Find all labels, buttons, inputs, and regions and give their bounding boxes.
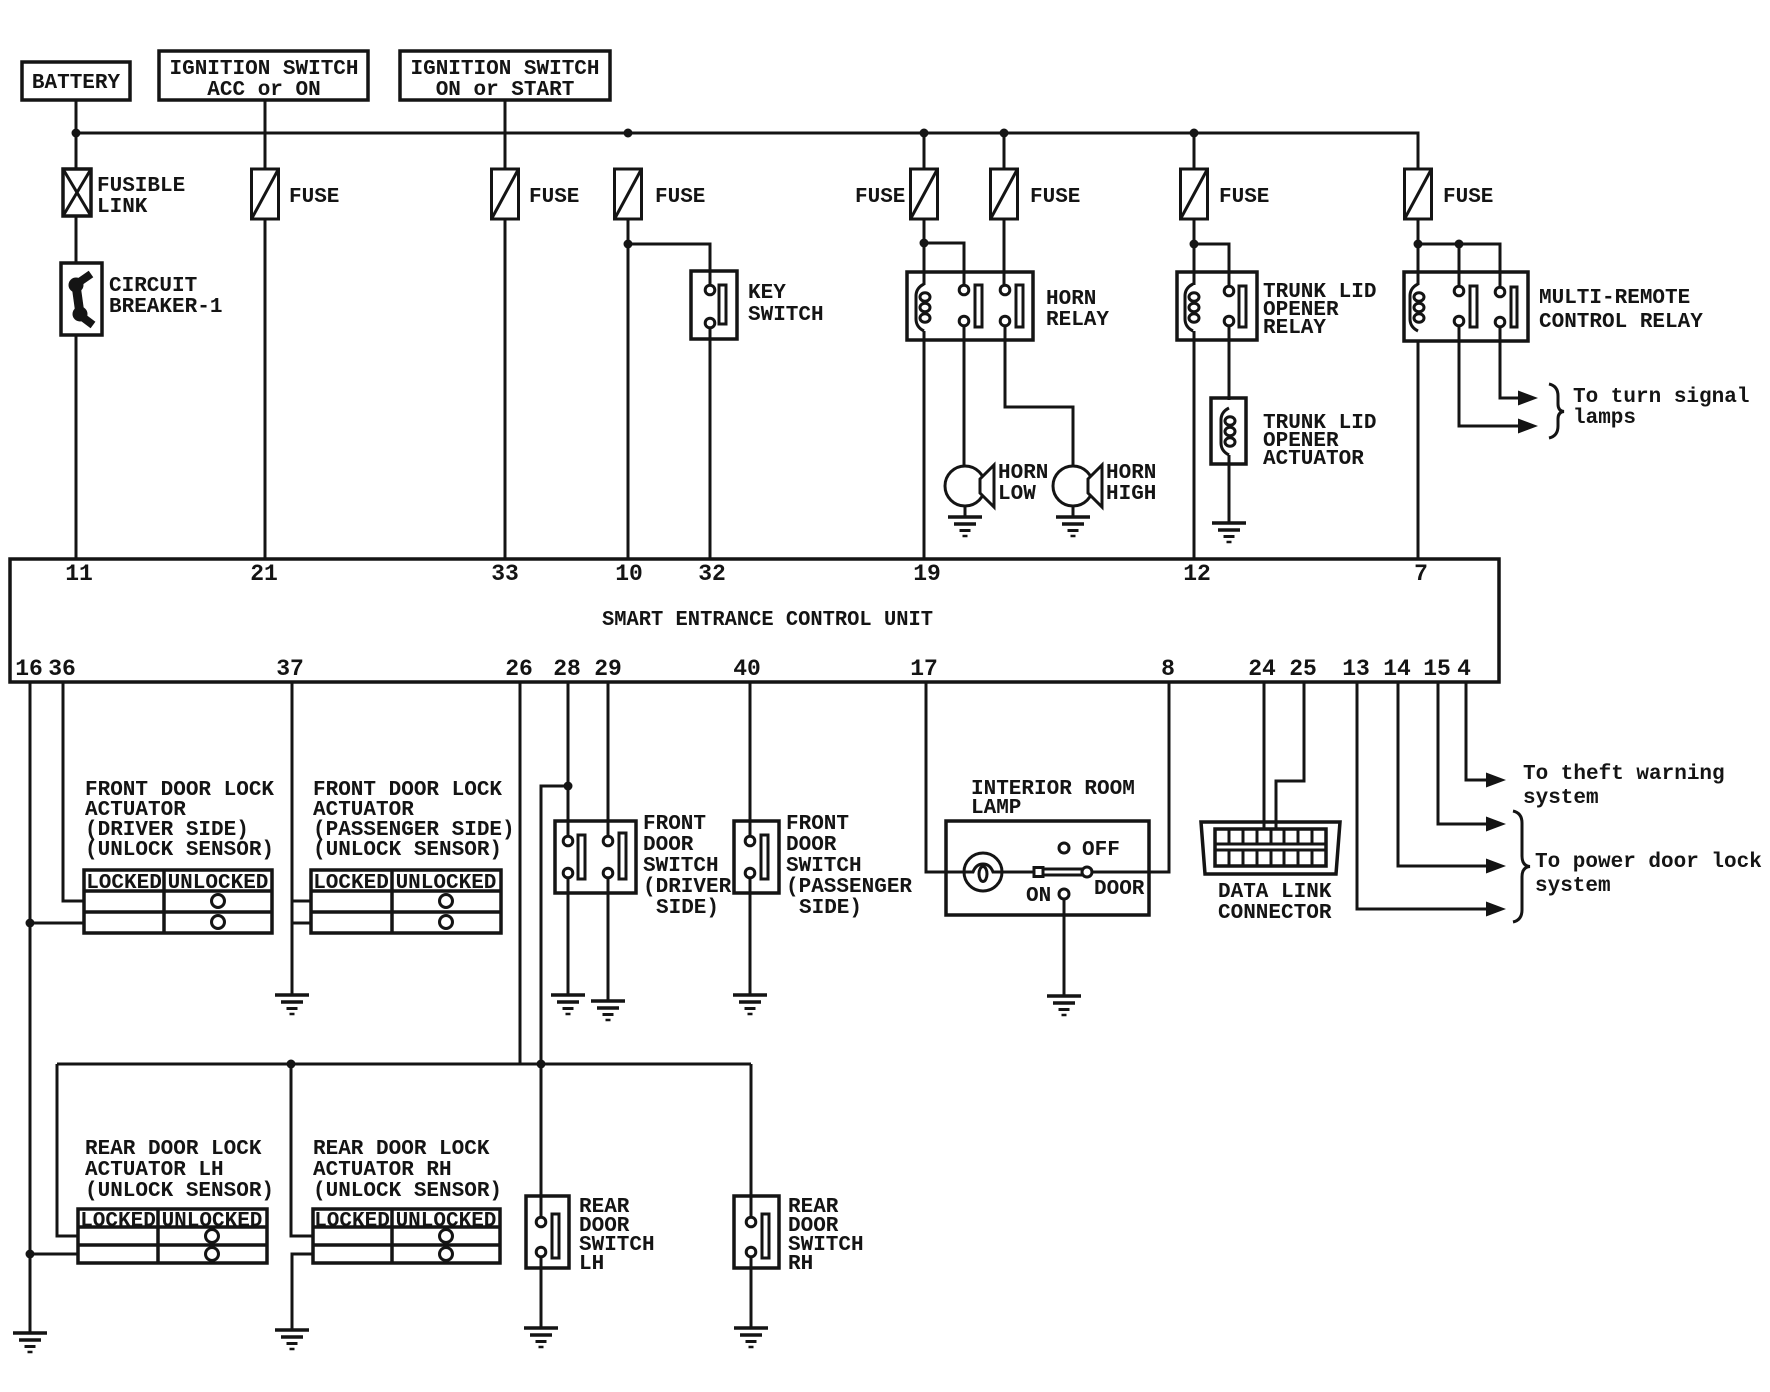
wire pin 15 to power door lock: [1438, 682, 1487, 824]
wire horn high to ground: [1072, 506, 1075, 517]
wire pin 37 down: [291, 682, 294, 995]
contact OFF: [1059, 843, 1069, 853]
fuse (pin10/key switch): [615, 169, 642, 219]
wire ON contact to ground: [1063, 899, 1066, 996]
svg-text:IGNITION SWITCH: IGNITION SWITCH: [169, 58, 358, 81]
front door switch driver side: [555, 813, 732, 920]
wire pin 40 down: [749, 682, 752, 836]
svg-text:LH: LH: [579, 1253, 604, 1276]
svg-text:UNLOCKED: UNLOCKED: [168, 872, 269, 895]
wire rear feed right corner to RH switch: [750, 1064, 753, 1202]
wire bus to fuse12: [1193, 133, 1196, 169]
wire trunk relay to actuator: [1228, 326, 1231, 400]
wire to rear LH actuator row3: [30, 1253, 78, 1256]
ground passenger switch: [733, 995, 767, 1014]
wire to passenger actuator row2: [292, 900, 311, 903]
svg-text:SIDE): SIDE): [656, 897, 719, 920]
switch pivot contact: [1034, 868, 1043, 877]
svg-text:LAMP: LAMP: [971, 797, 1021, 820]
wire fuse to pin 10: [627, 219, 630, 559]
switch blade: [1043, 869, 1083, 875]
svg-text:26: 26: [505, 656, 533, 682]
svg-text:OFF: OFF: [1082, 839, 1120, 862]
svg-text:(UNLOCK SENSOR): (UNLOCK SENSOR): [313, 839, 502, 862]
wire rear feed left corner to LH table row2: [57, 1064, 78, 1236]
ground lamp: [1047, 996, 1081, 1015]
svg-text:FUSE: FUSE: [1443, 186, 1493, 209]
svg-text:(UNLOCK SENSOR): (UNLOCK SENSOR): [85, 1180, 274, 1203]
svg-text:LOCKED: LOCKED: [313, 872, 389, 895]
svg-text:lamps: lamps: [1573, 407, 1636, 430]
node bus junction pin10 branch: [624, 129, 633, 138]
svg-text:DOOR: DOOR: [1094, 878, 1145, 901]
wire fusible link to breaker: [75, 216, 78, 263]
wire pin 29 down: [607, 682, 610, 836]
wire pin 25: [1276, 682, 1304, 829]
wire fuse to pin 21: [264, 219, 267, 559]
brace turn signal: [1549, 384, 1564, 438]
svg-text:RELAY: RELAY: [1263, 317, 1326, 340]
wire LH feed into switch: [540, 1064, 543, 1217]
node rear feed RH branch: [287, 1060, 296, 1069]
node pin16 to driver row3: [26, 919, 35, 928]
multi-remote control relay: [1404, 272, 1703, 341]
fuse (multi-remote): [1405, 169, 1432, 219]
wire pin 13 to power door lock: [1357, 682, 1487, 909]
bulb: [964, 853, 1002, 891]
front door switch passenger side: [734, 813, 912, 920]
wire horn relay coil to pin 19: [923, 331, 926, 559]
node multi branch 1: [1414, 240, 1423, 249]
svg-text:ACTUATOR LH: ACTUATOR LH: [85, 1159, 224, 1182]
node bus junction horn fuse2: [1000, 129, 1009, 138]
ground trunk actuator: [1212, 523, 1246, 542]
svg-text:BREAKER-1: BREAKER-1: [109, 296, 222, 319]
ignition switch ON or START box: [400, 51, 610, 102]
wire rear feed horizontal: [57, 1063, 751, 1066]
svg-text:REAR DOOR LOCK: REAR DOOR LOCK: [313, 1138, 490, 1161]
svg-text:16: 16: [15, 656, 43, 682]
svg-text:40: 40: [733, 656, 761, 682]
svg-text:MULTI-REMOTE: MULTI-REMOTE: [1539, 287, 1690, 310]
svg-text:FUSE: FUSE: [1219, 186, 1269, 209]
svg-text:HORN: HORN: [1046, 288, 1096, 311]
svg-text:FUSE: FUSE: [289, 186, 339, 209]
wire fuse to pin 33: [504, 219, 507, 559]
node bus-battery junction: [72, 129, 81, 138]
wire lamp to pin 8: [1092, 682, 1169, 872]
fuse (ON/pin33): [492, 169, 519, 219]
trunk lid opener relay: [1177, 272, 1376, 340]
ground pin16 chain: [13, 1333, 47, 1352]
wire branch to middle contact: [1458, 244, 1461, 287]
rear door lock actuator LH: [78, 1138, 274, 1263]
svg-text:32: 32: [698, 561, 726, 587]
svg-text:LOCKED: LOCKED: [80, 1210, 156, 1233]
svg-text:10: 10: [615, 561, 643, 587]
svg-text:KEY: KEY: [748, 282, 786, 305]
contact ON: [1059, 889, 1069, 899]
wire horn low to ground: [964, 506, 967, 517]
rear door lock actuator RH: [313, 1138, 502, 1263]
wire pin 14 to power door lock: [1398, 682, 1487, 866]
wire fuse to horn relay coil: [923, 219, 926, 285]
wire branch to rear feed: [541, 786, 568, 1064]
svg-text:BATTERY: BATTERY: [32, 72, 121, 95]
wire passenger switch to ground: [749, 878, 752, 995]
rear door switch LH: [526, 1196, 655, 1276]
arrow power door lock 3: [1486, 902, 1506, 917]
node rear feed / LH switch: [537, 1060, 546, 1069]
ground rear RH actuator: [275, 1330, 309, 1349]
svg-text:37: 37: [276, 656, 304, 682]
svg-text:system: system: [1535, 875, 1611, 898]
node trunk branch: [1190, 240, 1199, 249]
wire to driver actuator row3: [30, 922, 84, 925]
svg-text:(DRIVER: (DRIVER: [643, 876, 732, 899]
contact DOOR: [1082, 867, 1092, 877]
wire branch to horn relay contact: [924, 243, 964, 286]
wire branch to contacts: [1418, 244, 1500, 288]
wire fuse to multi relay coil: [1417, 219, 1420, 285]
wire trunk relay coil to pin 12: [1193, 331, 1196, 559]
wire key switch to pin 32: [709, 327, 712, 559]
svg-text:system: system: [1523, 787, 1599, 810]
svg-text:11: 11: [65, 561, 93, 587]
ground passenger actuator: [275, 995, 309, 1014]
svg-text:RELAY: RELAY: [1046, 309, 1109, 332]
svg-text:CONNECTOR: CONNECTOR: [1218, 902, 1332, 925]
svg-text:17: 17: [910, 656, 938, 682]
wire pin 16 down: [29, 682, 32, 1333]
data link connector: [1201, 822, 1340, 925]
wire bus to fuse h2: [1003, 133, 1006, 169]
svg-text:21: 21: [250, 561, 278, 587]
svg-text:7: 7: [1414, 561, 1428, 587]
svg-text:25: 25: [1289, 656, 1317, 682]
wire multi relay coil to pin 7: [1417, 341, 1420, 559]
wire horn relay to horn high: [1005, 326, 1073, 467]
svg-text:CIRCUIT: CIRCUIT: [109, 275, 197, 298]
ground driver switch L: [551, 995, 585, 1014]
wire bus to fuse19: [923, 133, 926, 169]
ground driver switch R: [591, 1001, 625, 1020]
arrow theft warning: [1486, 773, 1506, 788]
svg-text:FUSE: FUSE: [655, 186, 705, 209]
svg-text:29: 29: [594, 656, 622, 682]
svg-text:DATA LINK: DATA LINK: [1218, 881, 1332, 904]
svg-text:(UNLOCK SENSOR): (UNLOCK SENSOR): [85, 839, 274, 862]
fuse (horn contact): [991, 169, 1018, 219]
wire rear feed to RH table row2: [291, 1064, 313, 1236]
fuse (ACC/pin21): [252, 169, 279, 219]
svg-text:28: 28: [553, 656, 581, 682]
svg-text:15: 15: [1423, 656, 1451, 682]
svg-text:ON: ON: [1026, 885, 1051, 908]
wire bulb to switch: [1002, 871, 1035, 874]
fuse (trunk): [1181, 169, 1208, 219]
wire pin 24: [1263, 682, 1266, 829]
svg-text:36: 36: [48, 656, 76, 682]
node multi branch 2: [1455, 240, 1464, 249]
svg-text:To theft warning: To theft warning: [1523, 763, 1725, 786]
front door lock actuator driver side: [84, 779, 274, 933]
wire main bus: [76, 133, 1418, 169]
wire RH switch to ground: [750, 1257, 753, 1328]
node key switch branch: [624, 240, 633, 249]
svg-text:12: 12: [1183, 561, 1211, 587]
svg-text:(UNLOCK SENSOR): (UNLOCK SENSOR): [313, 1180, 502, 1203]
wire LH switch to ground: [540, 1257, 543, 1328]
front door lock actuator passenger side: [311, 779, 515, 933]
wire multi relay right contact to turn signal: [1500, 327, 1519, 398]
wire actuator to ground: [1228, 455, 1231, 523]
svg-text:14: 14: [1383, 656, 1411, 682]
svg-text:LOW: LOW: [998, 483, 1036, 506]
svg-text:To power door lock: To power door lock: [1535, 851, 1762, 874]
key switch: [691, 271, 824, 339]
svg-text:ACTUATOR: ACTUATOR: [1263, 448, 1364, 471]
wire fuse to trunk relay coil: [1193, 219, 1196, 285]
fuse (horn relay coil): [911, 169, 938, 219]
circuit breaker CB-1: [61, 263, 222, 335]
wire ACC switch drop: [264, 100, 267, 169]
svg-text:LOCKED: LOCKED: [314, 1210, 390, 1233]
svg-text:SWITCH: SWITCH: [748, 304, 824, 327]
svg-text:FUSE: FUSE: [1030, 186, 1080, 209]
wire pin 4 to theft warning: [1466, 682, 1487, 780]
arrow turn signal lower: [1518, 419, 1538, 434]
wire pin 26 down: [519, 682, 522, 1064]
svg-text:REAR DOOR LOCK: REAR DOOR LOCK: [85, 1138, 262, 1161]
wire RH feed into switch: [750, 1196, 753, 1217]
wire battery drop: [75, 100, 78, 169]
svg-text:UNLOCKED: UNLOCKED: [396, 872, 497, 895]
wire driver switch to ground R: [607, 878, 610, 1001]
ignition switch ACC or ON box: [159, 51, 368, 102]
svg-text:ACC or ON: ACC or ON: [207, 79, 320, 102]
wire driver switch to ground L: [567, 878, 570, 995]
horn high: [1053, 462, 1156, 507]
fusible link: [63, 169, 185, 219]
ground rear LH switch: [524, 1328, 558, 1347]
wire ON/START switch drop: [504, 100, 507, 169]
svg-text:CONTROL RELAY: CONTROL RELAY: [1539, 311, 1703, 334]
trunk lid opener actuator: [1211, 398, 1376, 471]
interior room lamp: [946, 778, 1149, 915]
ground horn low: [948, 517, 982, 536]
battery: [22, 62, 130, 100]
svg-text:HORN: HORN: [1106, 462, 1156, 485]
horn low: [945, 462, 1048, 507]
horn relay: [907, 272, 1109, 340]
svg-text:24: 24: [1248, 656, 1276, 682]
arrow power door lock 1: [1486, 817, 1506, 832]
svg-text:To turn signal: To turn signal: [1573, 386, 1749, 409]
brace power door lock: [1513, 811, 1530, 922]
wire passenger actuator row3 to ground: [292, 922, 311, 925]
svg-text:FUSIBLE: FUSIBLE: [97, 175, 185, 198]
svg-text:DOOR: DOOR: [643, 834, 694, 857]
arrow power door lock 2: [1486, 859, 1506, 874]
svg-text:DOOR: DOOR: [786, 834, 837, 857]
svg-text:SIDE): SIDE): [799, 897, 862, 920]
svg-text:LOCKED: LOCKED: [86, 872, 162, 895]
svg-text:HORN: HORN: [998, 462, 1048, 485]
svg-text:33: 33: [491, 561, 519, 587]
rear door switch RH: [734, 1196, 864, 1276]
svg-text:ACTUATOR RH: ACTUATOR RH: [313, 1159, 452, 1182]
svg-text:SMART ENTRANCE CONTROL UNIT: SMART ENTRANCE CONTROL UNIT: [602, 609, 933, 632]
svg-text:IGNITION SWITCH: IGNITION SWITCH: [410, 58, 599, 81]
wire RH table row3 to ground: [292, 1254, 313, 1330]
svg-text:SWITCH: SWITCH: [786, 855, 862, 878]
wire horn relay to horn low: [963, 326, 966, 467]
svg-text:4: 4: [1457, 656, 1471, 682]
node bus junction horn fuse1: [920, 129, 929, 138]
svg-text:HIGH: HIGH: [1106, 483, 1156, 506]
wire pin 36 to driver actuator row2: [63, 682, 84, 901]
wire pin 28 down: [567, 682, 570, 836]
wire breaker to pin 11: [75, 335, 78, 559]
ground rear RH switch: [734, 1328, 768, 1347]
wire branch to key switch: [628, 244, 710, 288]
node pin16 to rear LH row3: [26, 1250, 35, 1259]
svg-text:13: 13: [1342, 656, 1370, 682]
node bus junction trunk fuse: [1190, 129, 1199, 138]
svg-text:RH: RH: [788, 1253, 813, 1276]
ground horn high: [1056, 517, 1090, 536]
svg-text:FUSE: FUSE: [855, 186, 905, 209]
node pin28 branch: [564, 782, 573, 791]
svg-text:8: 8: [1161, 656, 1175, 682]
wire pin 17 to lamp: [926, 682, 964, 872]
svg-text:FRONT: FRONT: [643, 813, 706, 836]
wire branch to trunk relay contact: [1194, 244, 1229, 287]
wire fuse to horn relay contact 2: [1003, 219, 1006, 287]
svg-text:(PASSENGER: (PASSENGER: [786, 876, 912, 899]
svg-text:ON or START: ON or START: [436, 79, 575, 102]
arrow turn signal upper: [1518, 391, 1538, 406]
node horn branch: [920, 239, 929, 248]
svg-text:SWITCH: SWITCH: [643, 855, 719, 878]
wire multi relay middle contact to turn signal: [1459, 326, 1519, 426]
svg-text:19: 19: [913, 561, 941, 587]
svg-text:FUSE: FUSE: [529, 186, 579, 209]
svg-text:FRONT: FRONT: [786, 813, 849, 836]
svg-text:LINK: LINK: [97, 196, 148, 219]
